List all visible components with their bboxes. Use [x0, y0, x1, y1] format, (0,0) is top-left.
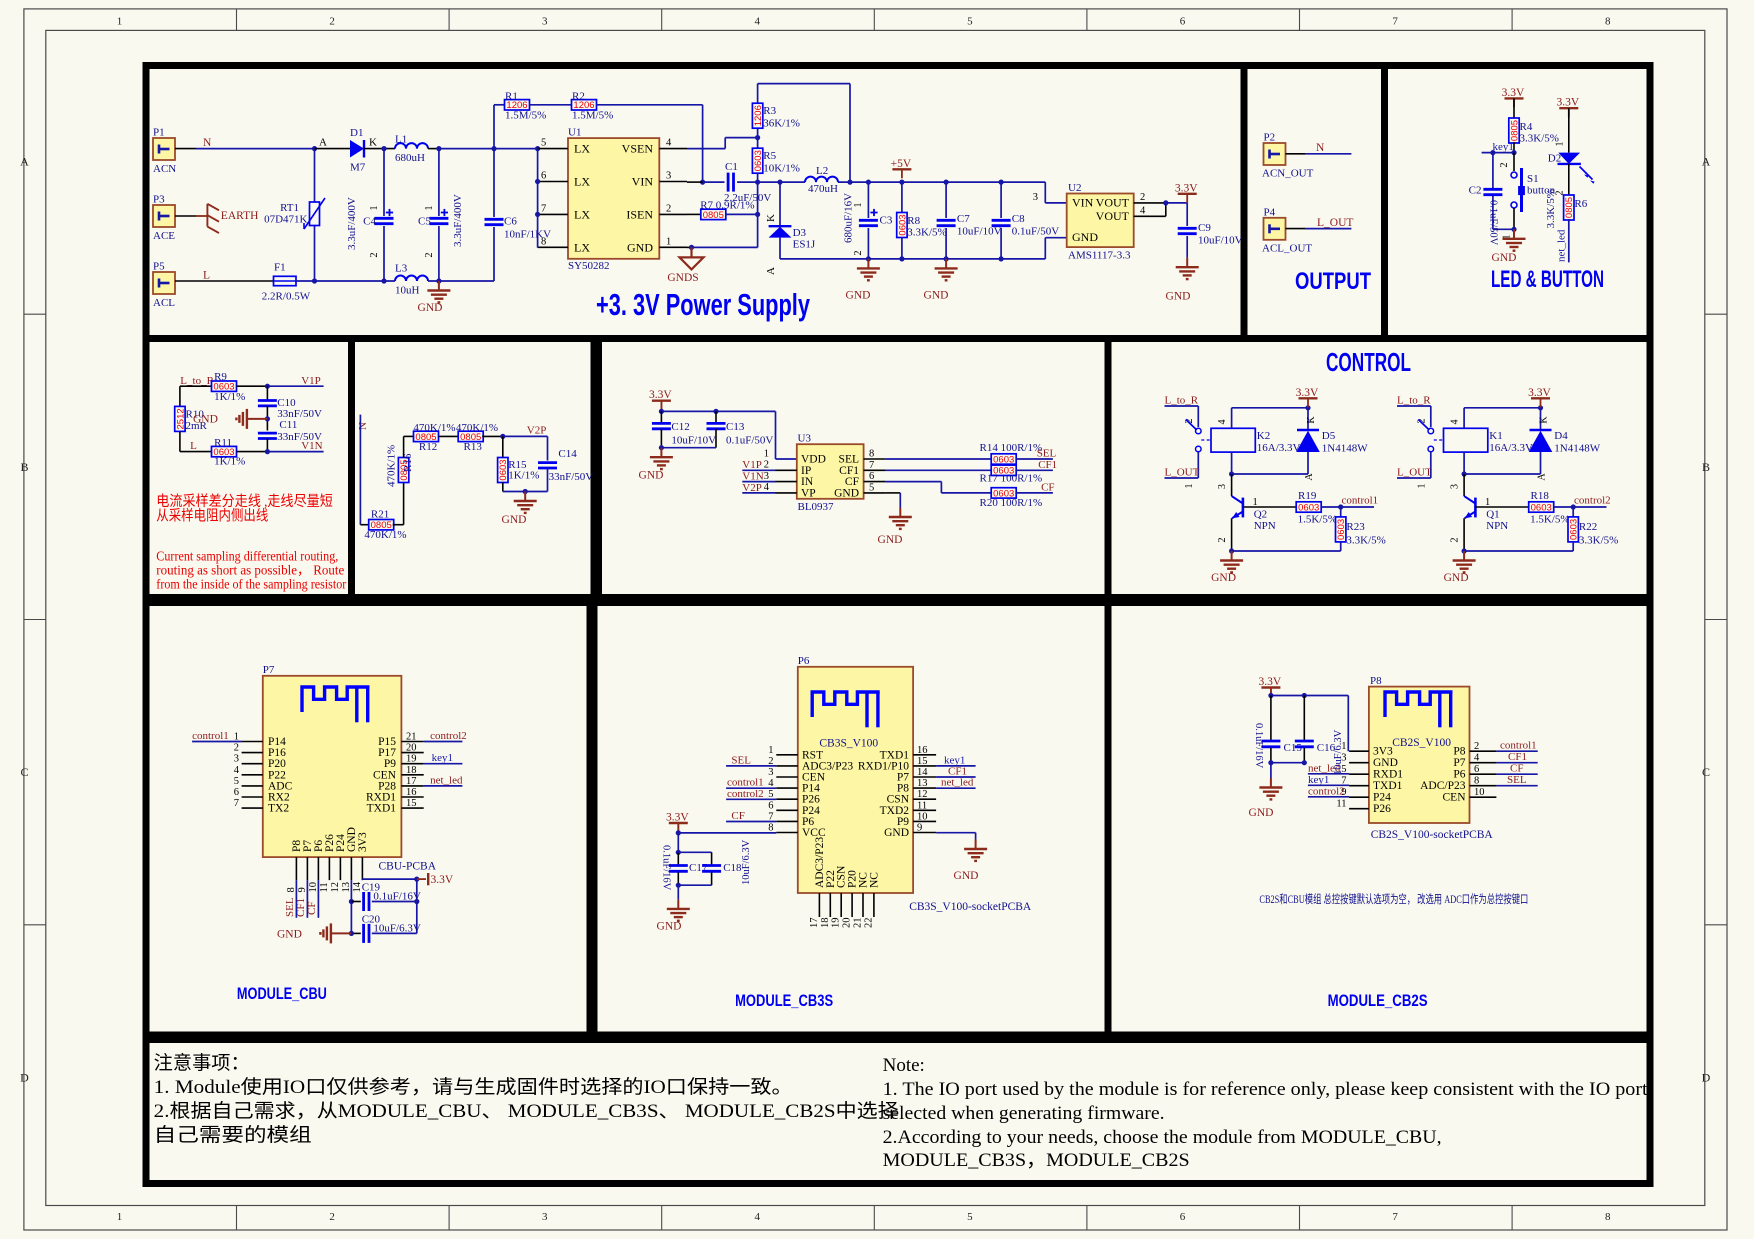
- svg-text:U2: U2: [1068, 182, 1081, 194]
- svg-text:2: 2: [369, 253, 380, 258]
- svg-text:470K/1%: 470K/1%: [386, 445, 398, 487]
- svg-text:1: 1: [764, 449, 769, 460]
- svg-text:C8: C8: [1012, 213, 1025, 225]
- svg-text:3.3K/5%: 3.3K/5%: [1520, 133, 1559, 145]
- wire R3 top loop to L2: [757, 84, 759, 104]
- svg-text:3V3: 3V3: [1373, 746, 1393, 758]
- IC U2 AMS1117-3.3: [1067, 194, 1134, 248]
- svg-text:CF: CF: [845, 476, 859, 488]
- svg-text:K: K: [369, 137, 377, 149]
- resistor R6: [1568, 164, 1570, 196]
- svg-text:C2: C2: [1469, 185, 1482, 197]
- wire R16 to R12: [403, 436, 405, 457]
- svg-text:P1: P1: [153, 127, 165, 139]
- transistor Q1 NPN: [1474, 498, 1477, 518]
- wire P6 GND pin9: [936, 832, 976, 834]
- wire D1 to L1: [364, 148, 395, 150]
- svg-text:CF1: CF1: [1508, 751, 1527, 763]
- svg-text:NPN: NPN: [1486, 520, 1508, 532]
- svg-text:MODULE_CB3S: MODULE_CB3S: [735, 992, 833, 1010]
- svg-text:2: 2: [424, 253, 435, 258]
- svg-text:RT1: RT1: [280, 202, 299, 214]
- capacitor C15: [1270, 696, 1272, 741]
- svg-text:V2P: V2P: [527, 425, 547, 437]
- svg-text:10: 10: [917, 811, 928, 822]
- svg-text:net_led: net_led: [941, 777, 974, 789]
- svg-text:33nF/50V: 33nF/50V: [549, 471, 594, 483]
- svg-text:L: L: [190, 440, 197, 452]
- svg-text:C7: C7: [957, 213, 970, 225]
- resistor R14: [991, 454, 1016, 464]
- resistor R8: [901, 182, 903, 213]
- svg-text:3.3V: 3.3V: [1259, 676, 1282, 688]
- ground GND CB2S: [1270, 778, 1272, 788]
- resistor R15: [502, 436, 504, 457]
- svg-text:470K/1%: 470K/1%: [364, 529, 406, 541]
- svg-text:D4: D4: [1554, 430, 1568, 442]
- svg-text:control1: control1: [192, 730, 229, 742]
- svg-text:470uH: 470uH: [808, 183, 838, 195]
- EARTH symbol: [196, 215, 207, 217]
- wire R11 to V1N node: [237, 451, 268, 453]
- svg-text:NPN: NPN: [1254, 520, 1276, 532]
- net CF1 from P8: [1496, 762, 1537, 764]
- svg-text:16: 16: [406, 787, 417, 798]
- net key1 from P6: [936, 765, 976, 767]
- svg-text:V1N: V1N: [301, 440, 322, 452]
- ruler column ticks: [236, 9, 238, 31]
- svg-text:8: 8: [286, 887, 297, 892]
- svg-text:1: 1: [1184, 484, 1195, 489]
- svg-text:3.3V: 3.3V: [1502, 87, 1525, 99]
- svg-text:1.5K/5%: 1.5K/5%: [1530, 514, 1569, 526]
- svg-text:NC: NC: [868, 872, 880, 888]
- svg-text:470K/1%: 470K/1%: [456, 422, 498, 434]
- svg-text:3: 3: [234, 754, 239, 765]
- relay K1: [1428, 428, 1434, 434]
- svg-text:R20 100R/1%: R20 100R/1%: [980, 497, 1043, 509]
- P6 left pins: [776, 754, 798, 756]
- svg-text:GND: GND: [418, 302, 443, 314]
- svg-text:6: 6: [1474, 764, 1479, 775]
- svg-text:12: 12: [330, 882, 341, 893]
- svg-text:GND: GND: [846, 290, 871, 302]
- svg-text:R4: R4: [1520, 121, 1533, 133]
- led & button section box: [1385, 66, 1651, 339]
- module_cb3s section box: [594, 603, 1108, 1036]
- svg-text:5: 5: [541, 138, 546, 149]
- svg-text:2: 2: [1499, 163, 1510, 168]
- svg-text:control1: control1: [1500, 740, 1537, 752]
- svg-text:L1: L1: [395, 134, 407, 146]
- capacitor C16: [1303, 696, 1305, 741]
- svg-text:N: N: [357, 422, 369, 430]
- net V1N wire: [267, 451, 323, 453]
- svg-text:1K/1%: 1K/1%: [214, 456, 245, 468]
- resistor R2: [572, 100, 597, 110]
- svg-text:20: 20: [842, 918, 853, 929]
- svg-text:GND: GND: [657, 921, 682, 933]
- inductor L1: [395, 143, 428, 148]
- svg-text:P3: P3: [153, 194, 165, 206]
- wire ISEN chain down to GND pin: [757, 182, 759, 247]
- svg-text:R9: R9: [214, 371, 227, 383]
- svg-text:key1: key1: [1493, 141, 1514, 153]
- svg-text:ACE: ACE: [153, 230, 175, 242]
- svg-text:C12: C12: [671, 421, 689, 433]
- svg-text:17: 17: [809, 918, 820, 929]
- svg-text:VOUT: VOUT: [1096, 209, 1130, 223]
- net control1 from P8: [1496, 750, 1537, 752]
- svg-text:11: 11: [917, 800, 927, 811]
- svg-text:control1: control1: [1342, 495, 1379, 507]
- svg-text:P7: P7: [263, 664, 275, 676]
- svg-text:8: 8: [768, 823, 773, 834]
- svg-text:M7: M7: [350, 162, 366, 174]
- svg-text:D2: D2: [1548, 153, 1561, 165]
- svg-text:D1: D1: [350, 127, 363, 139]
- wire F1 to RT1 bottom node: [296, 280, 315, 282]
- P6 right pins: [913, 754, 936, 756]
- svg-text:1. The IO port used by the mod: 1. The IO port used by the module is for…: [883, 1079, 1649, 1100]
- wire L_to_R to switch K1: [1397, 405, 1431, 407]
- LED D2: [1568, 108, 1570, 152]
- svg-text:ACL: ACL: [153, 297, 175, 309]
- svg-text:AMS1117-3.3: AMS1117-3.3: [1068, 250, 1131, 262]
- svg-text:4: 4: [1140, 206, 1146, 217]
- diode D5: [1307, 408, 1309, 430]
- svg-text:1N4148W: 1N4148W: [1322, 443, 1368, 455]
- capacitor C7: [945, 182, 947, 218]
- svg-text:SY50282: SY50282: [568, 260, 610, 272]
- wire 3.3V to VCC: [677, 823, 679, 833]
- svg-text:Q1: Q1: [1486, 508, 1499, 520]
- svg-text:注意事项：: 注意事项：: [154, 1052, 250, 1074]
- ground GND under Q2: [1231, 551, 1233, 561]
- svg-text:P5: P5: [153, 261, 165, 273]
- current sampling section box: [146, 339, 352, 598]
- wire N down to R21: [359, 415, 361, 525]
- wire R12 to R13: [439, 435, 460, 437]
- ground GND under C7: [945, 259, 947, 269]
- wire coil pin3 to collector K1: [1463, 452, 1465, 474]
- wire R1 to R2: [530, 104, 572, 106]
- svg-text:16A/3.3V: 16A/3.3V: [1489, 442, 1533, 454]
- svg-text:K: K: [765, 214, 777, 222]
- resistor R21: [360, 524, 369, 526]
- svg-text:CBU-PCBA: CBU-PCBA: [379, 861, 437, 873]
- svg-text:F1: F1: [274, 262, 286, 274]
- svg-text:CB3S_V100-socketPCBA: CB3S_V100-socketPCBA: [909, 901, 1032, 913]
- svg-text:0.1uF/16V: 0.1uF/16V: [1253, 723, 1264, 769]
- svg-text:13: 13: [917, 778, 928, 789]
- control section box: [1108, 339, 1650, 598]
- svg-text:10uF/6.3V: 10uF/6.3V: [373, 923, 420, 935]
- svg-text:3.3K/5%: 3.3K/5%: [1545, 189, 1557, 228]
- wire rail to U2 pin3: [1044, 182, 1046, 203]
- svg-text:1.5K/5%: 1.5K/5%: [1298, 514, 1337, 526]
- svg-text:6: 6: [1180, 1211, 1186, 1223]
- capacitor C4: [383, 149, 385, 216]
- svg-text:R21: R21: [371, 509, 389, 521]
- svg-text:CF1: CF1: [1038, 459, 1057, 471]
- wire VSEN to divider: [687, 148, 725, 150]
- svg-text:3V3: 3V3: [357, 832, 369, 852]
- wire CF out: [886, 481, 942, 483]
- relay K2: [1196, 428, 1202, 434]
- ground GND CB3S right: [975, 840, 977, 850]
- IC U3 BL0937: [797, 444, 864, 499]
- svg-text:GND: GND: [1166, 291, 1191, 303]
- power flag 3.3V K1: [1531, 397, 1550, 399]
- svg-text:net_led: net_led: [430, 774, 463, 786]
- svg-text:control2: control2: [727, 788, 764, 800]
- P8 left pins: [1349, 750, 1369, 752]
- P6 bottom pins: [818, 893, 820, 917]
- net CF1 from P7: [306, 880, 308, 918]
- svg-text:21: 21: [853, 918, 864, 929]
- svg-text:C6: C6: [504, 216, 517, 228]
- node ISEN junction: [755, 212, 760, 217]
- svg-text:SEL: SEL: [1507, 774, 1527, 786]
- resistor R19: [1243, 506, 1296, 508]
- svg-text:2: 2: [666, 203, 671, 214]
- svg-text:1.5M/5%: 1.5M/5%: [572, 109, 613, 121]
- svg-text:C: C: [20, 765, 28, 779]
- net SEL from P8: [1496, 785, 1537, 787]
- svg-text:2.根据自己需求，从MODULE_CBU、 MODULE_C: 2.根据自己需求，从MODULE_CBU、 MODULE_CB3S、 MODUL…: [154, 1100, 899, 1122]
- svg-text:0603: 0603: [993, 454, 1014, 465]
- svg-text:key1: key1: [432, 752, 453, 764]
- svg-text:MODULE_CBU: MODULE_CBU: [237, 985, 327, 1003]
- svg-text:19: 19: [406, 754, 417, 765]
- svg-text:S1: S1: [1527, 173, 1539, 185]
- svg-text:2: 2: [853, 251, 864, 256]
- power flag 3.3V output: [1178, 193, 1197, 195]
- svg-text:GND: GND: [277, 929, 302, 941]
- svg-text:L_to_R: L_to_R: [1397, 395, 1431, 407]
- wire P7 3V3 pin to 3.3V: [361, 879, 363, 880]
- module_cb2s section box: [1108, 603, 1650, 1036]
- svg-text:1: 1: [853, 203, 864, 208]
- svg-text:21: 21: [406, 732, 417, 743]
- svg-text:ES1J: ES1J: [793, 239, 816, 251]
- svg-text:3.3K/5%: 3.3K/5%: [1579, 535, 1618, 547]
- svg-text:ISEN: ISEN: [626, 207, 653, 221]
- wire C2 S1 bottom: [1493, 228, 1514, 230]
- svg-text:4: 4: [764, 482, 770, 493]
- svg-text:2: 2: [1140, 192, 1145, 203]
- U3 right pins: [864, 458, 886, 460]
- svg-text:SEL: SEL: [839, 454, 859, 466]
- svg-text:R1: R1: [505, 91, 518, 103]
- svg-text:L_OUT: L_OUT: [1317, 217, 1353, 229]
- resistor R1: [505, 100, 530, 110]
- svg-text:14: 14: [917, 767, 928, 778]
- svg-text:control2: control2: [430, 730, 467, 742]
- wire U2 pin2 pin4: [1134, 202, 1166, 204]
- svg-text:A: A: [1304, 473, 1315, 481]
- wire L to R11: [180, 451, 212, 453]
- capacitor C19: [349, 899, 354, 904]
- svg-text:VIN: VIN: [1072, 196, 1094, 210]
- net SEL into P6: [726, 765, 776, 767]
- inductor L3: [395, 276, 428, 282]
- connector P3: [153, 205, 175, 227]
- module P7 CBU body: [263, 676, 402, 857]
- svg-text:GND: GND: [502, 514, 527, 526]
- svg-text:1: 1: [768, 745, 773, 756]
- fuse F1: [274, 276, 297, 285]
- svg-text:0.1uF/50V: 0.1uF/50V: [1488, 200, 1499, 246]
- svg-text:V1N: V1N: [742, 471, 763, 483]
- svg-text:0.1uF/50V: 0.1uF/50V: [726, 435, 773, 447]
- svg-text:2.2R/0.5W: 2.2R/0.5W: [262, 291, 311, 303]
- svg-text:10uF/10V: 10uF/10V: [671, 435, 716, 447]
- svg-text:10uF/6.3V: 10uF/6.3V: [1333, 729, 1344, 775]
- resistor R20: [991, 488, 1016, 498]
- ground GND under Q1: [1463, 551, 1465, 561]
- resistor R12: [414, 431, 439, 441]
- svg-text:TXD1: TXD1: [367, 803, 397, 815]
- svg-text:3.3V: 3.3V: [431, 874, 454, 886]
- svg-text:GND: GND: [639, 470, 664, 482]
- connector P5: [153, 272, 175, 294]
- resistor R5: [757, 138, 759, 149]
- wire L_to_R to switch K2: [1165, 405, 1199, 407]
- resistor R18: [1475, 506, 1528, 508]
- net CF from P8: [1496, 773, 1537, 775]
- svg-text:4: 4: [1474, 753, 1480, 764]
- resistor R13: [458, 431, 483, 441]
- svg-text:R14 100R/1%: R14 100R/1%: [980, 442, 1043, 454]
- svg-text:C3: C3: [880, 215, 893, 227]
- svg-text:8: 8: [541, 236, 546, 247]
- svg-text:4: 4: [755, 1211, 761, 1223]
- svg-text:LX: LX: [574, 207, 590, 221]
- capacitor C11: [258, 432, 277, 435]
- svg-text:CB2S_V100: CB2S_V100: [1392, 737, 1451, 749]
- svg-text:MODULE_CB2S: MODULE_CB2S: [1328, 992, 1428, 1010]
- wire L1 to C5 node: [428, 148, 439, 150]
- svg-text:U1: U1: [568, 127, 581, 139]
- svg-text:GND: GND: [1492, 252, 1517, 264]
- svg-text:Q2: Q2: [1254, 508, 1267, 520]
- svg-text:22: 22: [863, 918, 874, 929]
- svg-text:1: 1: [117, 1211, 123, 1223]
- svg-text:ACN_OUT: ACN_OUT: [1262, 168, 1314, 180]
- svg-text:7: 7: [1392, 1211, 1398, 1223]
- svg-text:L2: L2: [816, 165, 828, 177]
- svg-text:ADC/P23: ADC/P23: [1420, 780, 1466, 792]
- resistor R23: [1340, 507, 1342, 517]
- svg-text:A: A: [20, 155, 29, 169]
- svg-text:8: 8: [869, 449, 874, 460]
- svg-text:10: 10: [1474, 787, 1485, 798]
- svg-text:2: 2: [329, 1211, 335, 1223]
- wire R9 to V1P node: [237, 385, 268, 387]
- wire VIN pin3: [687, 181, 703, 183]
- svg-text:GND: GND: [878, 534, 903, 546]
- svg-text:C1: C1: [725, 161, 738, 173]
- svg-text:470K/1%: 470K/1%: [413, 422, 455, 434]
- wire switch pin1 L_OUT K1: [1430, 452, 1432, 478]
- wire coil pin3 to collector K2: [1231, 452, 1233, 474]
- svg-text:电流采样差分走线 ,走线尽量短: 电流采样差分走线 ,走线尽量短: [156, 493, 332, 510]
- svg-text:routing as short as possible，: routing as short as possible， Route: [156, 563, 344, 578]
- net control2 from P7: [424, 741, 463, 743]
- connector P1: [153, 138, 175, 160]
- antenna glyph P6: [812, 692, 880, 717]
- svg-text:5: 5: [967, 1211, 973, 1223]
- svg-text:C4: C4: [363, 216, 376, 228]
- net control1 into P6: [726, 787, 776, 789]
- svg-text:SEL: SEL: [1037, 448, 1057, 460]
- wire 3.3V rail CB2S: [1270, 688, 1272, 696]
- wire emitter rail Q2: [1232, 550, 1341, 552]
- IC U1 SY50282: [568, 138, 659, 259]
- svg-text:680uF/16V: 680uF/16V: [843, 193, 855, 243]
- power flag 3.3V CB3S: [669, 822, 688, 824]
- svg-text:2: 2: [329, 16, 335, 28]
- svg-text:R3: R3: [763, 105, 776, 117]
- svg-text:L_OUT: L_OUT: [1397, 467, 1432, 479]
- svg-text:10K/1%: 10K/1%: [763, 163, 800, 175]
- svg-text:L_OUT: L_OUT: [1165, 467, 1200, 479]
- P7 bottom pins: [295, 857, 297, 880]
- svg-text:K2: K2: [1257, 430, 1270, 442]
- svg-text:从采样电阻内侧出线: 从采样电阻内侧出线: [156, 508, 268, 525]
- wire P1 to node A: [175, 148, 196, 150]
- svg-text:9: 9: [917, 823, 922, 834]
- svg-text:R5: R5: [763, 150, 776, 162]
- svg-text:3: 3: [666, 171, 671, 182]
- svg-text:L_to_R: L_to_R: [1165, 395, 1199, 407]
- power flag 3.3V for R4: [1505, 97, 1524, 99]
- svg-text:key1: key1: [1308, 774, 1329, 786]
- svg-text:R6: R6: [1574, 198, 1587, 210]
- net V2P wire: [503, 435, 548, 437]
- wire coil pin4 K2: [1231, 408, 1233, 429]
- svg-text:2: 2: [234, 743, 239, 754]
- wire L_to_R to R9: [180, 385, 212, 387]
- svg-text:CF1: CF1: [839, 465, 859, 477]
- svg-text:ACL_OUT: ACL_OUT: [1262, 242, 1312, 254]
- resistor R4: [1513, 98, 1515, 119]
- svg-text:18: 18: [820, 918, 831, 929]
- bottom rail wire: [315, 280, 396, 282]
- power flag 3.3V for D2: [1559, 107, 1578, 109]
- svg-text:GND: GND: [627, 240, 653, 254]
- svg-text:11: 11: [319, 882, 330, 892]
- svg-text:D: D: [20, 1070, 29, 1084]
- svg-text:VIN: VIN: [632, 175, 654, 189]
- svg-text:V1P: V1P: [742, 459, 762, 471]
- capacitor C14: [547, 436, 549, 460]
- output section box: [1244, 66, 1385, 339]
- svg-text:1: 1: [666, 236, 671, 247]
- svg-text:680uH: 680uH: [395, 152, 425, 164]
- net CF into P6: [726, 821, 776, 823]
- svg-text:8: 8: [1605, 1211, 1611, 1223]
- resistor R3: [757, 128, 759, 137]
- svg-text:N: N: [203, 137, 212, 149]
- ruler row ticks: [24, 313, 46, 315]
- svg-text:1: 1: [1417, 484, 1428, 489]
- svg-text:1.5M/5%: 1.5M/5%: [505, 109, 546, 121]
- svg-text:3.3V: 3.3V: [666, 812, 689, 824]
- svg-text:SEL: SEL: [731, 754, 751, 766]
